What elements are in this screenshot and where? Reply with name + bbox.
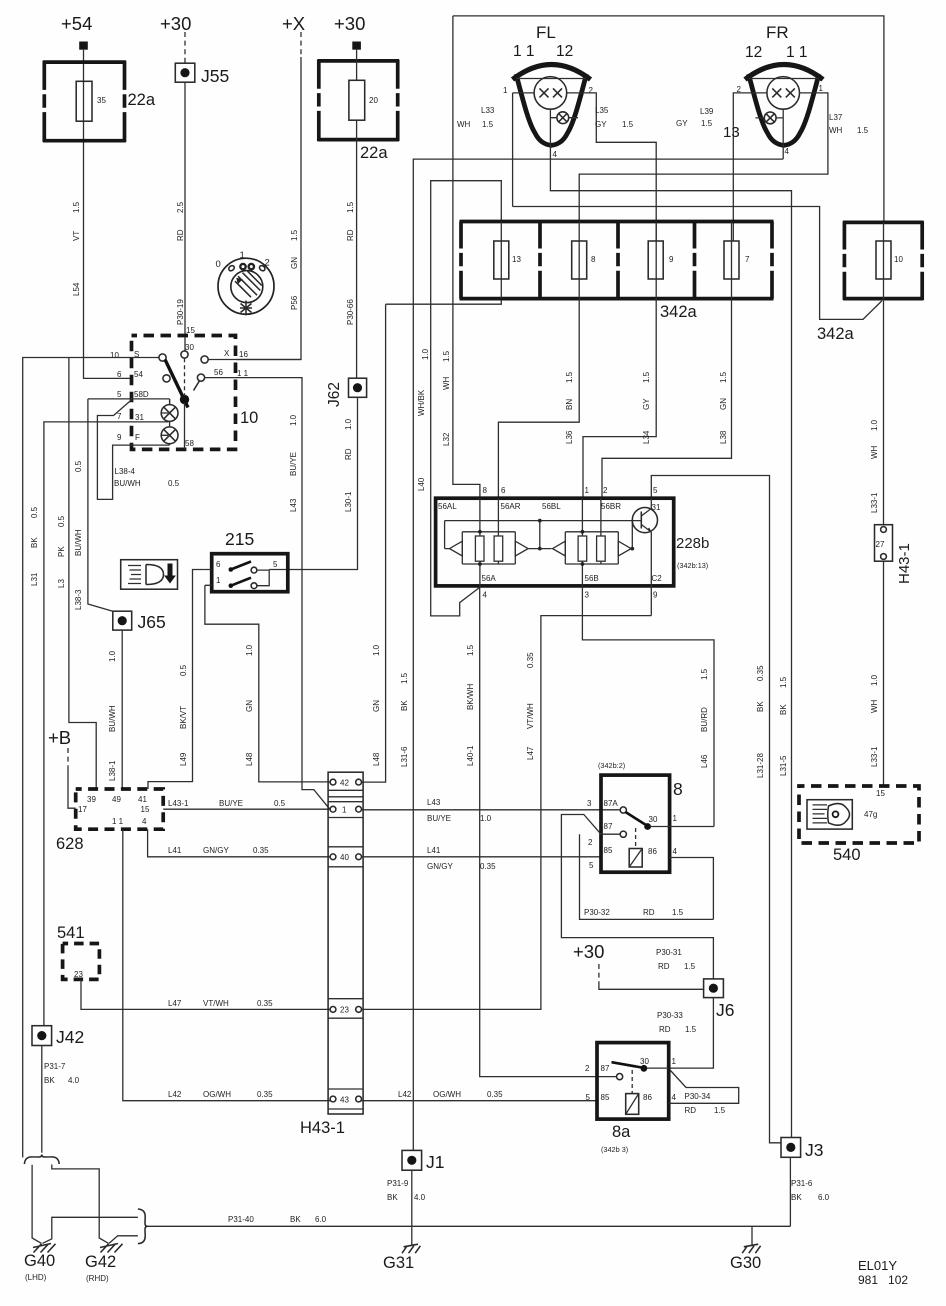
svg-text:1.5: 1.5 bbox=[700, 668, 709, 680]
relay 8 (342b:2) bbox=[587, 761, 714, 872]
svg-text:1: 1 bbox=[819, 84, 824, 93]
svg-text:56: 56 bbox=[214, 368, 223, 377]
svg-text:6.0: 6.0 bbox=[818, 1193, 830, 1202]
svg-text:GN: GN bbox=[245, 700, 254, 712]
ground G40 bbox=[24, 1244, 56, 1283]
svg-text:L43-1: L43-1 bbox=[168, 799, 189, 808]
svg-text:WH: WH bbox=[870, 445, 879, 459]
svg-text:85: 85 bbox=[604, 846, 613, 855]
svg-text:P31-6: P31-6 bbox=[791, 1179, 813, 1188]
svg-text:BK: BK bbox=[30, 537, 39, 548]
svg-text:87: 87 bbox=[604, 822, 613, 831]
svg-text:2: 2 bbox=[265, 258, 270, 269]
svg-text:BK: BK bbox=[756, 701, 765, 712]
svg-text:1: 1 bbox=[585, 486, 590, 495]
ground G30 bbox=[730, 1226, 761, 1272]
connector 628 (dashed) bbox=[56, 789, 163, 853]
fuse 10 (342a) bbox=[817, 221, 924, 343]
svg-text:54: 54 bbox=[134, 370, 143, 379]
wire P30-32 RD 1.5 (relay 8 coil feed hook) bbox=[580, 834, 714, 919]
wire L41 GN/GY 0.35 (pin 40 to relay 8 85) bbox=[362, 846, 602, 871]
wire L34 GY 1.5 (fuse 9 bottom to 228b pin 1) bbox=[583, 299, 656, 499]
svg-text:4: 4 bbox=[142, 817, 147, 826]
svg-text:0.35: 0.35 bbox=[257, 1090, 273, 1099]
svg-text:GN: GN bbox=[290, 257, 299, 269]
svg-text:L46: L46 bbox=[700, 754, 709, 768]
svg-text:27: 27 bbox=[876, 540, 885, 549]
svg-text:1.5: 1.5 bbox=[857, 126, 869, 135]
svg-text:GY: GY bbox=[676, 119, 688, 128]
svg-text:39: 39 bbox=[87, 795, 96, 804]
wire L3 PK 0.5 labels bbox=[57, 515, 66, 588]
svg-text:(342b 3): (342b 3) bbox=[601, 1145, 628, 1154]
wire L38 GN 1.5 (fuse 7 bottom to 228b pin 2) bbox=[602, 299, 732, 499]
svg-text:BK: BK bbox=[791, 1193, 802, 1202]
svg-text:86: 86 bbox=[643, 1093, 652, 1102]
svg-text:87A: 87A bbox=[604, 799, 619, 808]
svg-text:J55: J55 bbox=[201, 66, 229, 86]
ground bus wire bbox=[148, 1225, 791, 1227]
228b transistor bbox=[632, 498, 657, 586]
junction J3 bbox=[781, 1138, 823, 1161]
svg-text:1.5: 1.5 bbox=[290, 229, 299, 241]
svg-text:1.5: 1.5 bbox=[701, 119, 713, 128]
svg-text:(342b:2): (342b:2) bbox=[598, 761, 625, 770]
wire P31-40 BK 6.0 (ground bus to brace) bbox=[43, 1209, 327, 1244]
svg-text:1: 1 bbox=[240, 250, 245, 261]
svg-text:2: 2 bbox=[588, 838, 593, 847]
svg-text:L31-6: L31-6 bbox=[400, 746, 409, 767]
svg-text:RD: RD bbox=[176, 229, 185, 241]
wire L38-1 BU/WH 1.0 (J65 to 628 pin 49) bbox=[108, 630, 122, 789]
svg-text:2: 2 bbox=[603, 486, 608, 495]
headlamp FR bbox=[737, 23, 824, 159]
svg-text:EL01Y: EL01Y bbox=[858, 1258, 897, 1273]
svg-text:8a: 8a bbox=[612, 1123, 631, 1141]
svg-text:1: 1 bbox=[673, 814, 678, 823]
svg-text:L42: L42 bbox=[168, 1090, 182, 1099]
lamp unit 541 (dashed) bbox=[57, 924, 99, 979]
svg-text:9: 9 bbox=[653, 591, 658, 600]
svg-text:1.0: 1.0 bbox=[372, 644, 381, 656]
svg-text:+30: +30 bbox=[573, 941, 604, 962]
228b internal bus bbox=[445, 519, 638, 551]
svg-text:1 1: 1 1 bbox=[112, 817, 124, 826]
svg-text:342a: 342a bbox=[660, 303, 698, 321]
svg-text:OG/WH: OG/WH bbox=[203, 1090, 231, 1099]
svg-text:L30-1: L30-1 bbox=[344, 491, 353, 512]
svg-text:23: 23 bbox=[340, 1006, 349, 1015]
svg-text:VT/WH: VT/WH bbox=[526, 703, 535, 729]
svg-text:L38-1: L38-1 bbox=[108, 760, 117, 781]
svg-text:WH: WH bbox=[829, 126, 843, 135]
wire L32 WH 1.5 (frame / fuse13 to 228b pin 8) bbox=[442, 16, 480, 498]
svg-text:1: 1 bbox=[342, 806, 347, 815]
wire L43 BU/YE 1.0 (switch 56 to connector pin 1) bbox=[204, 378, 330, 810]
svg-text:1: 1 bbox=[503, 86, 508, 95]
svg-text:X: X bbox=[224, 349, 230, 358]
svg-text:20: 20 bbox=[369, 96, 378, 105]
svg-text:41: 41 bbox=[138, 795, 147, 804]
wire: top frame (fuse 10 feed) bbox=[453, 16, 884, 223]
svg-text:BU/RD: BU/RD bbox=[700, 707, 709, 732]
node +B bbox=[48, 727, 76, 808]
svg-text:L43: L43 bbox=[427, 798, 441, 807]
svg-text:0.5: 0.5 bbox=[30, 506, 39, 518]
svg-text:L33-1: L33-1 bbox=[870, 746, 879, 767]
svg-text:86: 86 bbox=[648, 847, 657, 856]
svg-text:1 1: 1 1 bbox=[237, 369, 249, 378]
svg-text:5: 5 bbox=[117, 390, 122, 399]
ground G42 bbox=[85, 1244, 123, 1284]
svg-text:56BL: 56BL bbox=[542, 502, 561, 511]
svg-text:56BR: 56BR bbox=[601, 502, 621, 511]
svg-text:WH: WH bbox=[870, 699, 879, 713]
svg-text:BU/YE: BU/YE bbox=[289, 452, 298, 476]
svg-text:P31-40: P31-40 bbox=[228, 1215, 254, 1224]
wire P30-19 RD 2.5 (J55 to switch pin 30) bbox=[176, 82, 185, 352]
svg-text:1.0: 1.0 bbox=[289, 414, 298, 426]
svg-text:L38-4: L38-4 bbox=[115, 467, 136, 476]
svg-text:6: 6 bbox=[501, 486, 506, 495]
relay 8a (342b:3) bbox=[585, 1043, 677, 1154]
sheet id EL01Y bbox=[858, 1258, 908, 1287]
svg-text:1.5: 1.5 bbox=[719, 371, 728, 383]
svg-text:BK: BK bbox=[290, 1215, 301, 1224]
svg-text:L54: L54 bbox=[72, 282, 81, 296]
switch terminal X bbox=[201, 356, 208, 363]
svg-text:1.5: 1.5 bbox=[714, 1106, 726, 1115]
svg-text:47g: 47g bbox=[864, 810, 877, 819]
svg-text:2.5: 2.5 bbox=[176, 201, 185, 213]
svg-text:H43-1: H43-1 bbox=[300, 1119, 345, 1137]
junction J65 bbox=[113, 611, 166, 632]
svg-text:5: 5 bbox=[586, 1093, 591, 1102]
wire L41 GN/GY 0.35 (628 pin 4 to connector pin 40) bbox=[148, 829, 331, 857]
wire L43 BU/YE 1.0 (pin 1 to relay 8 87A) bbox=[362, 798, 621, 823]
svg-text:GN: GN bbox=[372, 700, 381, 712]
svg-text:540: 540 bbox=[833, 846, 861, 864]
svg-text:0.5: 0.5 bbox=[57, 515, 66, 527]
svg-text:13: 13 bbox=[723, 124, 740, 141]
wire L47 VT/WH 0.35 (541 to connector pin 23) bbox=[81, 979, 331, 1009]
svg-text:RD: RD bbox=[659, 1025, 671, 1034]
svg-text:1.5: 1.5 bbox=[685, 1025, 697, 1034]
svg-text:0.5: 0.5 bbox=[179, 664, 188, 676]
wire L48 GN 1.0 (row 42 right to fuse 13 circuit) bbox=[361, 304, 386, 782]
wire L38-3 BU/WH 0.5 (58D to J65) bbox=[74, 399, 113, 611]
svg-text:1.0: 1.0 bbox=[108, 650, 117, 662]
svg-text:L35: L35 bbox=[595, 106, 609, 115]
svg-text:P31-7: P31-7 bbox=[44, 1062, 66, 1071]
svg-text:H43-1: H43-1 bbox=[896, 543, 913, 584]
node +30 (fuse 20 feed) bbox=[334, 13, 365, 50]
rotary light switch symbol bbox=[216, 250, 275, 316]
svg-text:GY: GY bbox=[642, 398, 651, 410]
svg-text:BK/VT: BK/VT bbox=[179, 706, 188, 729]
svg-text:BK: BK bbox=[400, 700, 409, 711]
svg-text:GN: GN bbox=[719, 398, 728, 410]
svg-text:L48: L48 bbox=[372, 752, 381, 766]
junction J55 bbox=[175, 63, 229, 86]
svg-text:10: 10 bbox=[894, 255, 903, 264]
fuse holder 342a (13,8,9,7) bbox=[460, 222, 774, 322]
control module 228b bbox=[436, 486, 710, 600]
svg-text:5: 5 bbox=[653, 486, 658, 495]
wire L31-5 BK 1.5 labels bbox=[779, 676, 788, 776]
svg-text:0.35: 0.35 bbox=[480, 862, 496, 871]
wire L38-4 / 58D to lamps bbox=[88, 399, 180, 488]
svg-text:8: 8 bbox=[483, 486, 488, 495]
svg-text:1.5: 1.5 bbox=[779, 676, 788, 688]
junction J42 bbox=[32, 1026, 84, 1047]
fuse 20 (22a) bbox=[318, 50, 400, 162]
svg-text:L47: L47 bbox=[168, 999, 182, 1008]
telltale lamp 1 in switch bbox=[161, 405, 178, 422]
svg-text:L31: L31 bbox=[30, 572, 39, 586]
telltale lamp 2 in switch bbox=[161, 427, 178, 444]
svg-text:BK: BK bbox=[44, 1076, 55, 1085]
svg-text:GN/GY: GN/GY bbox=[427, 862, 453, 871]
svg-text:12: 12 bbox=[745, 44, 762, 61]
svg-text:P30-31: P30-31 bbox=[656, 948, 682, 957]
svg-text:6: 6 bbox=[117, 370, 122, 379]
svg-text:1.0: 1.0 bbox=[344, 418, 353, 430]
svg-text:56AL: 56AL bbox=[438, 502, 457, 511]
wire FL pin1 to fuse10 output (via right) bbox=[513, 207, 882, 320]
node +30 (J55 feed) bbox=[160, 13, 191, 63]
svg-text:FL: FL bbox=[536, 23, 556, 42]
svg-text:1: 1 bbox=[216, 576, 221, 585]
svg-text:40: 40 bbox=[340, 853, 349, 862]
svg-text:30: 30 bbox=[649, 815, 658, 824]
svg-text:228b: 228b bbox=[676, 535, 709, 552]
wire L48 GN 1.0 (215 pin 1 to connector 42 left) bbox=[205, 585, 331, 782]
wire P31-9 BK 4.0 (J1 to G31) bbox=[387, 1170, 426, 1245]
wire to G42 bbox=[52, 1165, 109, 1244]
svg-text:BU/YE: BU/YE bbox=[427, 814, 451, 823]
svg-text:BK: BK bbox=[779, 704, 788, 715]
svg-text:P30-33: P30-33 bbox=[657, 1011, 683, 1020]
svg-text:WH: WH bbox=[442, 376, 451, 390]
svg-text:12: 12 bbox=[556, 43, 573, 60]
wire L37 WH 1.5 (FR pin 1 to fuse 8) bbox=[579, 93, 868, 222]
svg-text:G30: G30 bbox=[730, 1254, 761, 1272]
svg-text:56B: 56B bbox=[585, 574, 599, 583]
svg-text:0.5: 0.5 bbox=[168, 479, 180, 488]
svg-text:1.5: 1.5 bbox=[466, 644, 475, 656]
svg-text:23: 23 bbox=[74, 970, 83, 979]
svg-text:L31-28: L31-28 bbox=[756, 753, 765, 778]
svg-text:WH/BK: WH/BK bbox=[417, 389, 426, 416]
svg-text:OG/WH: OG/WH bbox=[433, 1090, 461, 1099]
wire L42 OG/WH 0.35 (pin 43 to relay 8a 85) bbox=[362, 1090, 598, 1101]
svg-text:22a: 22a bbox=[360, 144, 388, 162]
svg-text:0.35: 0.35 bbox=[487, 1090, 503, 1099]
svg-text:1: 1 bbox=[672, 1057, 677, 1066]
svg-text:BU/WH: BU/WH bbox=[114, 479, 141, 488]
ground G31 bbox=[383, 1244, 420, 1272]
svg-text:1.5: 1.5 bbox=[346, 201, 355, 213]
svg-text:1.5: 1.5 bbox=[72, 201, 81, 213]
junction J62 bbox=[326, 378, 367, 407]
wire F to 58D jog bbox=[97, 400, 169, 500]
svg-text:342a: 342a bbox=[817, 325, 855, 343]
wire P56 GN 1.5 (+X to switch pin 16) bbox=[236, 57, 301, 360]
svg-text:6: 6 bbox=[216, 560, 221, 569]
svg-text:7: 7 bbox=[117, 412, 122, 421]
svg-text:G42: G42 bbox=[85, 1253, 116, 1271]
fuse 35 (22a) bbox=[43, 61, 156, 142]
svg-text:F: F bbox=[135, 433, 140, 442]
svg-text:J6: J6 bbox=[716, 1000, 734, 1020]
svg-text:49: 49 bbox=[112, 795, 121, 804]
svg-text:P56: P56 bbox=[290, 295, 299, 310]
svg-text:GN/GY: GN/GY bbox=[203, 846, 229, 855]
switch terminal 56 bbox=[197, 374, 204, 381]
wire L30-1 RD 1.0 (J62 to dip switch 215 pin 5) bbox=[269, 397, 357, 569]
svg-text:RD: RD bbox=[643, 908, 655, 917]
svg-text:+30: +30 bbox=[160, 13, 191, 34]
svg-text:8: 8 bbox=[591, 255, 596, 264]
wire to G40 bbox=[32, 1165, 41, 1244]
svg-text:1.0: 1.0 bbox=[480, 814, 492, 823]
wire L31-28 BK 0.35 (228b pin 5 to J3) bbox=[651, 476, 781, 1143]
svg-text:6.0: 6.0 bbox=[315, 1215, 327, 1224]
svg-text:1.5: 1.5 bbox=[684, 962, 696, 971]
svg-text:2: 2 bbox=[589, 86, 594, 95]
svg-text:1.5: 1.5 bbox=[642, 371, 651, 383]
svg-text:L48: L48 bbox=[245, 752, 254, 766]
svg-text:4.0: 4.0 bbox=[414, 1193, 426, 1202]
svg-text:0.35: 0.35 bbox=[253, 846, 269, 855]
svg-text:628: 628 bbox=[56, 835, 84, 853]
wire L33-1 WH 1.0 (fuse 10 to H43-1 pin 27) bbox=[870, 301, 884, 525]
node +X bbox=[282, 13, 305, 57]
svg-text:L40: L40 bbox=[417, 477, 426, 491]
wire P30-34 RD 1.5 (relay 8a pin 1 to coil 86) bbox=[669, 1071, 739, 1116]
svg-text:1.0: 1.0 bbox=[870, 419, 879, 431]
spotlight unit 540 (dashed) bbox=[799, 786, 919, 864]
wire relay 8 pin 4 (86) to P30-32 junction bbox=[670, 858, 714, 920]
svg-text:J1: J1 bbox=[426, 1152, 444, 1172]
svg-text:541: 541 bbox=[57, 924, 85, 942]
wire L31-6 BK 1.5 (FR pin 4 to J1) bbox=[400, 159, 783, 1150]
svg-text:1.5: 1.5 bbox=[672, 908, 684, 917]
svg-text:(LHD): (LHD) bbox=[25, 1273, 47, 1282]
svg-text:BU/WH: BU/WH bbox=[74, 529, 83, 556]
svg-text:3: 3 bbox=[585, 591, 590, 600]
svg-text:P30-66: P30-66 bbox=[346, 299, 355, 325]
svg-text:RD: RD bbox=[685, 1106, 697, 1115]
svg-text:P30-34: P30-34 bbox=[685, 1092, 711, 1101]
wire L43-1 BU/YE 0.5 (628 pin 15 to connector pin 1) bbox=[163, 799, 330, 809]
svg-text:0.35: 0.35 bbox=[257, 999, 273, 1008]
svg-text:1 1: 1 1 bbox=[513, 43, 535, 60]
switch arm (30 to S) bbox=[165, 358, 200, 449]
svg-text:2: 2 bbox=[585, 1064, 590, 1073]
svg-text:L34: L34 bbox=[642, 430, 651, 444]
svg-text:16: 16 bbox=[239, 350, 248, 359]
wire L46 BU/RD 1.5 (228b pin 3 to relay 8 pin 1) bbox=[582, 586, 714, 827]
connector strip H43-1 bbox=[300, 772, 363, 1137]
svg-text:J65: J65 bbox=[138, 612, 166, 632]
svg-text:0.5: 0.5 bbox=[74, 460, 83, 472]
svg-text:1.5: 1.5 bbox=[565, 371, 574, 383]
svg-text:1 1: 1 1 bbox=[786, 44, 808, 61]
svg-text:L43: L43 bbox=[289, 498, 298, 512]
svg-text:G31: G31 bbox=[383, 1254, 414, 1272]
svg-text:BN: BN bbox=[565, 399, 574, 410]
svg-text:31: 31 bbox=[135, 413, 144, 422]
svg-text:FR: FR bbox=[766, 23, 789, 42]
svg-text:0.5: 0.5 bbox=[274, 799, 286, 808]
svg-text:L33-1: L33-1 bbox=[870, 492, 879, 513]
svg-text:3: 3 bbox=[587, 799, 592, 808]
wire P31-6 BK 6.0 (J3 to ground bus) bbox=[790, 1157, 829, 1226]
junction J1 bbox=[402, 1150, 444, 1172]
svg-text:(RHD): (RHD) bbox=[86, 1274, 109, 1283]
svg-text:+30: +30 bbox=[334, 13, 365, 34]
svg-text:1.5: 1.5 bbox=[442, 350, 451, 362]
svg-text:BU/WH: BU/WH bbox=[108, 705, 117, 732]
wire L40 WH/BK 1.0 (fuse 13 top to 228b pin 4 hook) bbox=[417, 181, 501, 616]
svg-text:L49: L49 bbox=[179, 752, 188, 766]
svg-text:L38: L38 bbox=[719, 430, 728, 444]
svg-text:1.5: 1.5 bbox=[482, 120, 494, 129]
svg-text:P30-19: P30-19 bbox=[176, 299, 185, 325]
228b sensor group A bbox=[445, 498, 552, 586]
svg-text:215: 215 bbox=[225, 529, 254, 549]
svg-text:VT/WH: VT/WH bbox=[203, 999, 229, 1008]
svg-text:J62: J62 bbox=[326, 382, 343, 407]
svg-text:42: 42 bbox=[340, 779, 349, 788]
wire L31-5 start (FL pin 4 ground line) bbox=[550, 145, 791, 1139]
svg-text:L38-3: L38-3 bbox=[74, 589, 83, 610]
svg-text:RD: RD bbox=[344, 448, 353, 460]
svg-text:981 102: 981 102 bbox=[858, 1273, 908, 1287]
wire L31 BK 0.5 (lamps midpoint to J42/G40) bbox=[30, 399, 170, 1026]
svg-text:+B: +B bbox=[48, 727, 71, 748]
svg-text:22a: 22a bbox=[128, 91, 156, 109]
svg-text:P30-32: P30-32 bbox=[584, 908, 610, 917]
svg-text:L37: L37 bbox=[829, 113, 843, 122]
svg-text:1.0: 1.0 bbox=[421, 348, 430, 360]
svg-text:GY: GY bbox=[595, 120, 607, 129]
wire L35 GY 1.5 (FL pin 2 to fuse 9) bbox=[567, 93, 657, 241]
svg-text:30: 30 bbox=[640, 1057, 649, 1066]
svg-text:15: 15 bbox=[876, 789, 885, 798]
svg-text:L32: L32 bbox=[442, 432, 451, 446]
svg-text:15: 15 bbox=[186, 326, 195, 335]
dip-beam icon bbox=[121, 560, 178, 590]
svg-text:85: 85 bbox=[601, 1093, 610, 1102]
junction J6 bbox=[704, 979, 735, 1020]
wire: switch S to +B / 628 pin 39 bbox=[23, 358, 160, 1158]
svg-text:5: 5 bbox=[273, 560, 278, 569]
svg-text:L33: L33 bbox=[481, 106, 495, 115]
svg-text:13: 13 bbox=[512, 255, 521, 264]
wire P31-7 BK 4.0 (J42 to ground split) bbox=[42, 1046, 80, 1153]
svg-text:L40-1: L40-1 bbox=[466, 745, 475, 766]
svg-text:7: 7 bbox=[745, 255, 750, 264]
node +54 bbox=[61, 13, 92, 50]
svg-text:56AR: 56AR bbox=[501, 502, 521, 511]
svg-text:5: 5 bbox=[589, 861, 594, 870]
wire P30-31 (relay 8 pin 87 to J6) bbox=[561, 815, 713, 979]
svg-text:1.5: 1.5 bbox=[622, 120, 634, 129]
switch terminal 30 bbox=[181, 351, 188, 358]
